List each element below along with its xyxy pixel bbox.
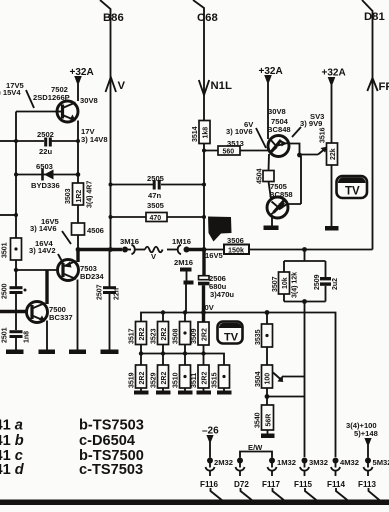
svg-text:560: 560 (223, 149, 235, 156)
resistor 3506 (150k) (224, 236, 249, 255)
svg-text:3507: 3507 (272, 276, 279, 292)
transistor 7503 (BD234) (58, 260, 105, 282)
svg-text:2R2: 2R2 (161, 372, 168, 385)
svg-text:c-D6504: c-D6504 (79, 433, 136, 449)
capacitor 2509 (2u2) (314, 261, 339, 302)
resistor 3505 (470) wire (111, 216, 205, 218)
svg-text:5)+148: 5)+148 (354, 429, 378, 438)
svg-text:–26: –26 (202, 426, 219, 437)
ground bar 3516 (325, 226, 339, 231)
wire 7505 base to collector junction (288, 156, 301, 204)
capacitor 2501 (1n8) (2, 294, 31, 350)
resistor network column 3517/3519 (129, 322, 149, 395)
arrow V (direction up) (106, 77, 117, 92)
transistor 7502 (2SD1266P) (33, 85, 78, 122)
wire 7505 emitter to ground (271, 217, 273, 226)
rail 0V y312.5 (141, 313, 336, 458)
svg-text:41 a: 41 a (0, 418, 23, 434)
capacitor 2506 (680u) (198, 250, 234, 323)
svg-text:3M16: 3M16 (120, 237, 139, 246)
svg-text:BC848: BC848 (267, 125, 291, 134)
svg-text:3504: 3504 (255, 371, 262, 387)
svg-text:3519: 3519 (129, 372, 136, 388)
connector F114 (4M32) (327, 458, 359, 502)
wire N1L row y249.5 to D81 (204, 249, 373, 251)
wire 7502 emitter vertical x78 (77, 121, 79, 184)
svg-text:150k: 150k (228, 246, 244, 255)
TV icon (3516 variant) (337, 176, 368, 198)
wire 0V stub to 7500 base (thick) (0, 310, 27, 313)
svg-text:3517: 3517 (129, 328, 136, 344)
svg-text:4M32: 4M32 (340, 458, 359, 467)
svg-text:3514: 3514 (192, 126, 199, 142)
svg-text:1R2: 1R2 (76, 190, 83, 203)
net E/W bracket (240, 443, 272, 458)
annotation 6V / 3) 10V6 with pointer (226, 120, 266, 148)
svg-text:100: 100 (265, 373, 272, 385)
svg-text:F116: F116 (200, 480, 218, 489)
resistor network column 3509/3511 (191, 322, 211, 395)
wire B86 vertical (net V to connector B86) (100, 0, 111, 250)
resistor 3504 (100) trimmer (255, 365, 284, 388)
svg-text:3511: 3511 (191, 373, 198, 388)
svg-text:3(4) 12k: 3(4) 12k (292, 272, 299, 298)
svg-text:N1L: N1L (211, 80, 232, 92)
connector D72 (234, 458, 253, 502)
resistor 3514 (1k8) (192, 121, 210, 144)
svg-text:3) 10V6: 3) 10V6 (226, 127, 253, 136)
svg-text:3) 15V4: 3) 15V4 (0, 88, 21, 97)
wire 3516 to ground (331, 165, 333, 226)
annotation 16V4 / 3) 14V2 with pointer (29, 239, 63, 263)
svg-text:+32A: +32A (322, 68, 346, 79)
svg-text:2502: 2502 (37, 130, 54, 139)
svg-text:22k: 22k (330, 148, 337, 160)
connector 2M16 tap (174, 258, 194, 313)
wire 7502 base from node A (16, 111, 58, 113)
combo top bar (284, 260, 326, 262)
svg-text:3523: 3523 (151, 328, 158, 344)
resistor 3507 (10k) (272, 261, 299, 302)
svg-text:2507: 2507 (97, 284, 104, 300)
svg-text:3506: 3506 (227, 236, 244, 245)
svg-text:D81: D81 (364, 11, 385, 23)
svg-text:V: V (118, 80, 126, 92)
svg-text:3509: 3509 (191, 328, 198, 344)
svg-text:2M16: 2M16 (174, 258, 193, 267)
svg-text:3) 14V2: 3) 14V2 (29, 246, 56, 255)
wire 7500 emitter to ground (46, 321, 48, 351)
resistor 3535 (255, 313, 273, 366)
capacitor 2505 (47n) wire (111, 184, 205, 186)
source -26 (202, 426, 219, 458)
wire wiper net down to F115 (304, 302, 306, 458)
source 3(4)+100 / 5)+148 (346, 421, 378, 458)
svg-text:TV: TV (224, 332, 239, 344)
svg-text:5M32: 5M32 (373, 458, 389, 467)
svg-text:3)470u: 3)470u (210, 290, 234, 299)
arrow N1L (direction down) (199, 80, 209, 95)
svg-text:47n: 47n (148, 191, 161, 200)
resistor 3503 (1R2) (65, 181, 94, 208)
svg-text:41 b: 41 b (0, 433, 24, 449)
junction V / B86 column (108, 247, 113, 252)
svg-text:F113: F113 (358, 480, 376, 489)
svg-text:BD234: BD234 (80, 272, 104, 281)
wire node A vertical x16 (15, 112, 17, 239)
wire 7504 collector to junction (288, 144, 300, 156)
connector F116 (2M32) (200, 458, 233, 502)
wire squiggle (external wire V) (145, 247, 163, 253)
ground bar (2501) (6, 350, 24, 355)
transistor 7500 (BC337) (27, 302, 73, 323)
svg-text:1k8: 1k8 (202, 127, 209, 139)
transistor 7504 (BC848) (267, 107, 291, 157)
wire D81 vertical (362, 0, 373, 250)
svg-text:2509: 2509 (314, 274, 321, 290)
svg-text:F114: F114 (327, 480, 345, 489)
svg-text:2R2: 2R2 (161, 328, 168, 341)
svg-text:22u: 22u (39, 147, 52, 156)
wire C68 column x204 (203, 144, 205, 277)
capacitor 2505 (147, 174, 165, 200)
wire wiper tap y376.5 (282, 376, 305, 378)
wire V corner at 7503 emitter (76, 250, 79, 263)
wire (77, 205, 79, 223)
svg-text:41 d: 41 d (0, 462, 25, 478)
svg-text:0V: 0V (205, 303, 215, 312)
capacitor 2507 (22n) (97, 250, 121, 350)
svg-text:BC858: BC858 (269, 190, 293, 199)
svg-text:1M32: 1M32 (277, 458, 296, 467)
wire 7503 collector down to ground (77, 280, 79, 351)
svg-text:3505: 3505 (147, 201, 165, 210)
jumper 4504 (257, 154, 275, 184)
annotation SV3 / 3) 9V9 with pointer (292, 112, 324, 137)
ink blob annotation (208, 217, 232, 242)
capacitor 2502 (22u) (37, 130, 54, 156)
ground bar 3540 (261, 434, 275, 439)
resistor 3540 (56R) (255, 405, 274, 434)
svg-text:2SD1266P: 2SD1266P (33, 93, 70, 102)
parallel combo node from 3506 (304, 250, 306, 262)
svg-text:2500: 2500 (2, 283, 9, 299)
svg-text:3540: 3540 (255, 412, 262, 428)
combo bottom bar (284, 301, 326, 303)
connector F115 (3M32) (294, 458, 328, 502)
connector 1M16 (167, 237, 204, 254)
svg-text:3) 14V6: 3) 14V6 (30, 224, 57, 233)
svg-text:3529: 3529 (151, 372, 158, 388)
junction (14, 139, 18, 143)
svg-text:3515: 3515 (212, 372, 219, 388)
resistor 3515 (212, 365, 232, 395)
svg-text:3) 14V8: 3) 14V8 (81, 135, 108, 144)
svg-text:4506: 4506 (87, 226, 104, 235)
arrow FF (direction up) (367, 78, 377, 91)
resistor 3516 (22k) (320, 127, 338, 165)
ground bar (7503) (69, 350, 86, 355)
ground bar 7505 (264, 226, 279, 231)
svg-text:2R2: 2R2 (139, 328, 146, 341)
svg-text:BYD336: BYD336 (31, 181, 60, 190)
resistor 3513 (560) (218, 139, 244, 156)
wire 7500 collector to 7503 base (thick) (45, 270, 48, 304)
board edge bar (0, 500, 389, 506)
svg-text:3M32: 3M32 (309, 458, 328, 467)
svg-text:b-TS7503: b-TS7503 (79, 418, 144, 434)
rail mid y353.5 (141, 354, 224, 366)
ground bar (2507) (101, 350, 119, 355)
wire 7503 base y270 (16, 269, 58, 271)
resistor 3501 (2, 238, 22, 260)
svg-text:16V5: 16V5 (205, 251, 224, 260)
svg-text:30V8: 30V8 (268, 107, 286, 116)
svg-text:BC337: BC337 (49, 313, 73, 322)
ground bar (7500) (39, 350, 56, 355)
wire C68 vertical (net N1L) (193, 0, 204, 121)
annotation 17V5 / 15V4 with pointer (0, 81, 34, 108)
svg-text:3535: 3535 (255, 329, 262, 345)
svg-text:3513: 3513 (227, 139, 244, 148)
svg-text:F115: F115 (294, 480, 312, 489)
connector 3M16 (120, 237, 145, 254)
svg-text:3501: 3501 (2, 242, 9, 258)
wire 3504 bottom to wiper column y396.5 (267, 396, 305, 398)
resistor 3505 (146, 201, 167, 222)
svg-text:2M32: 2M32 (214, 458, 233, 467)
TV icon (network variant) (218, 322, 243, 344)
svg-text:c-TS7503: c-TS7503 (79, 462, 143, 478)
capacitor 2500 (2, 260, 27, 299)
svg-text:D72: D72 (234, 480, 249, 489)
wire 2502 line y141 (16, 140, 78, 142)
svg-text:10k: 10k (282, 277, 289, 289)
resistor network column 3508/3510 (173, 313, 193, 395)
jumper 4506 (72, 223, 104, 235)
svg-text:3503: 3503 (65, 188, 72, 204)
junction (76, 139, 80, 143)
svg-text:6503: 6503 (36, 162, 53, 171)
svg-text:3510: 3510 (173, 372, 180, 388)
svg-text:470: 470 (150, 215, 162, 222)
transistor 7505 (BC858) (267, 182, 293, 219)
diode 6503 (BYD336) (31, 162, 60, 190)
wire net V thick horizontal (78, 248, 122, 251)
svg-text:2R2: 2R2 (202, 328, 209, 341)
svg-text:2505: 2505 (147, 174, 165, 183)
connector F113 (5M32) (358, 458, 389, 502)
svg-text:22n: 22n (114, 288, 121, 300)
svg-text:C68: C68 (197, 12, 218, 24)
svg-text:1M16: 1M16 (172, 237, 191, 246)
svg-text:B86: B86 (103, 12, 124, 24)
wire collector to 3516 wiper arrow (300, 147, 328, 155)
connector F117 (1M32) (262, 458, 296, 502)
svg-text:2u2: 2u2 (332, 278, 339, 290)
resistor network column 3523/3529 (151, 313, 171, 395)
svg-text:2R2: 2R2 (139, 372, 146, 385)
svg-text:1n8: 1n8 (24, 331, 31, 343)
wire stub left y141 (0, 140, 16, 142)
svg-text:F117: F117 (262, 480, 280, 489)
svg-text:4504: 4504 (257, 168, 264, 184)
svg-text:56R: 56R (266, 414, 273, 427)
wire 7504 base y150.5 (204, 150, 269, 152)
svg-text:TV: TV (345, 186, 360, 198)
svg-text:3(4) 4R7: 3(4) 4R7 (87, 181, 94, 208)
wire stub left y215 (0, 214, 16, 216)
annotation 16V5 / 3) 14V6 with pointer (30, 217, 71, 244)
wire (77, 235, 79, 261)
wire 6503 line y174.5 (16, 174, 78, 176)
svg-text:3508: 3508 (173, 328, 180, 344)
svg-text:2501: 2501 (2, 327, 9, 343)
svg-text:3516: 3516 (320, 127, 327, 143)
svg-text:2R2: 2R2 (202, 372, 209, 385)
svg-text:30V8: 30V8 (80, 96, 98, 105)
svg-text:3) 9V9: 3) 9V9 (300, 119, 322, 128)
wire 3504 bottom junction (266, 388, 268, 405)
svg-text:FFI: FFI (379, 81, 389, 93)
